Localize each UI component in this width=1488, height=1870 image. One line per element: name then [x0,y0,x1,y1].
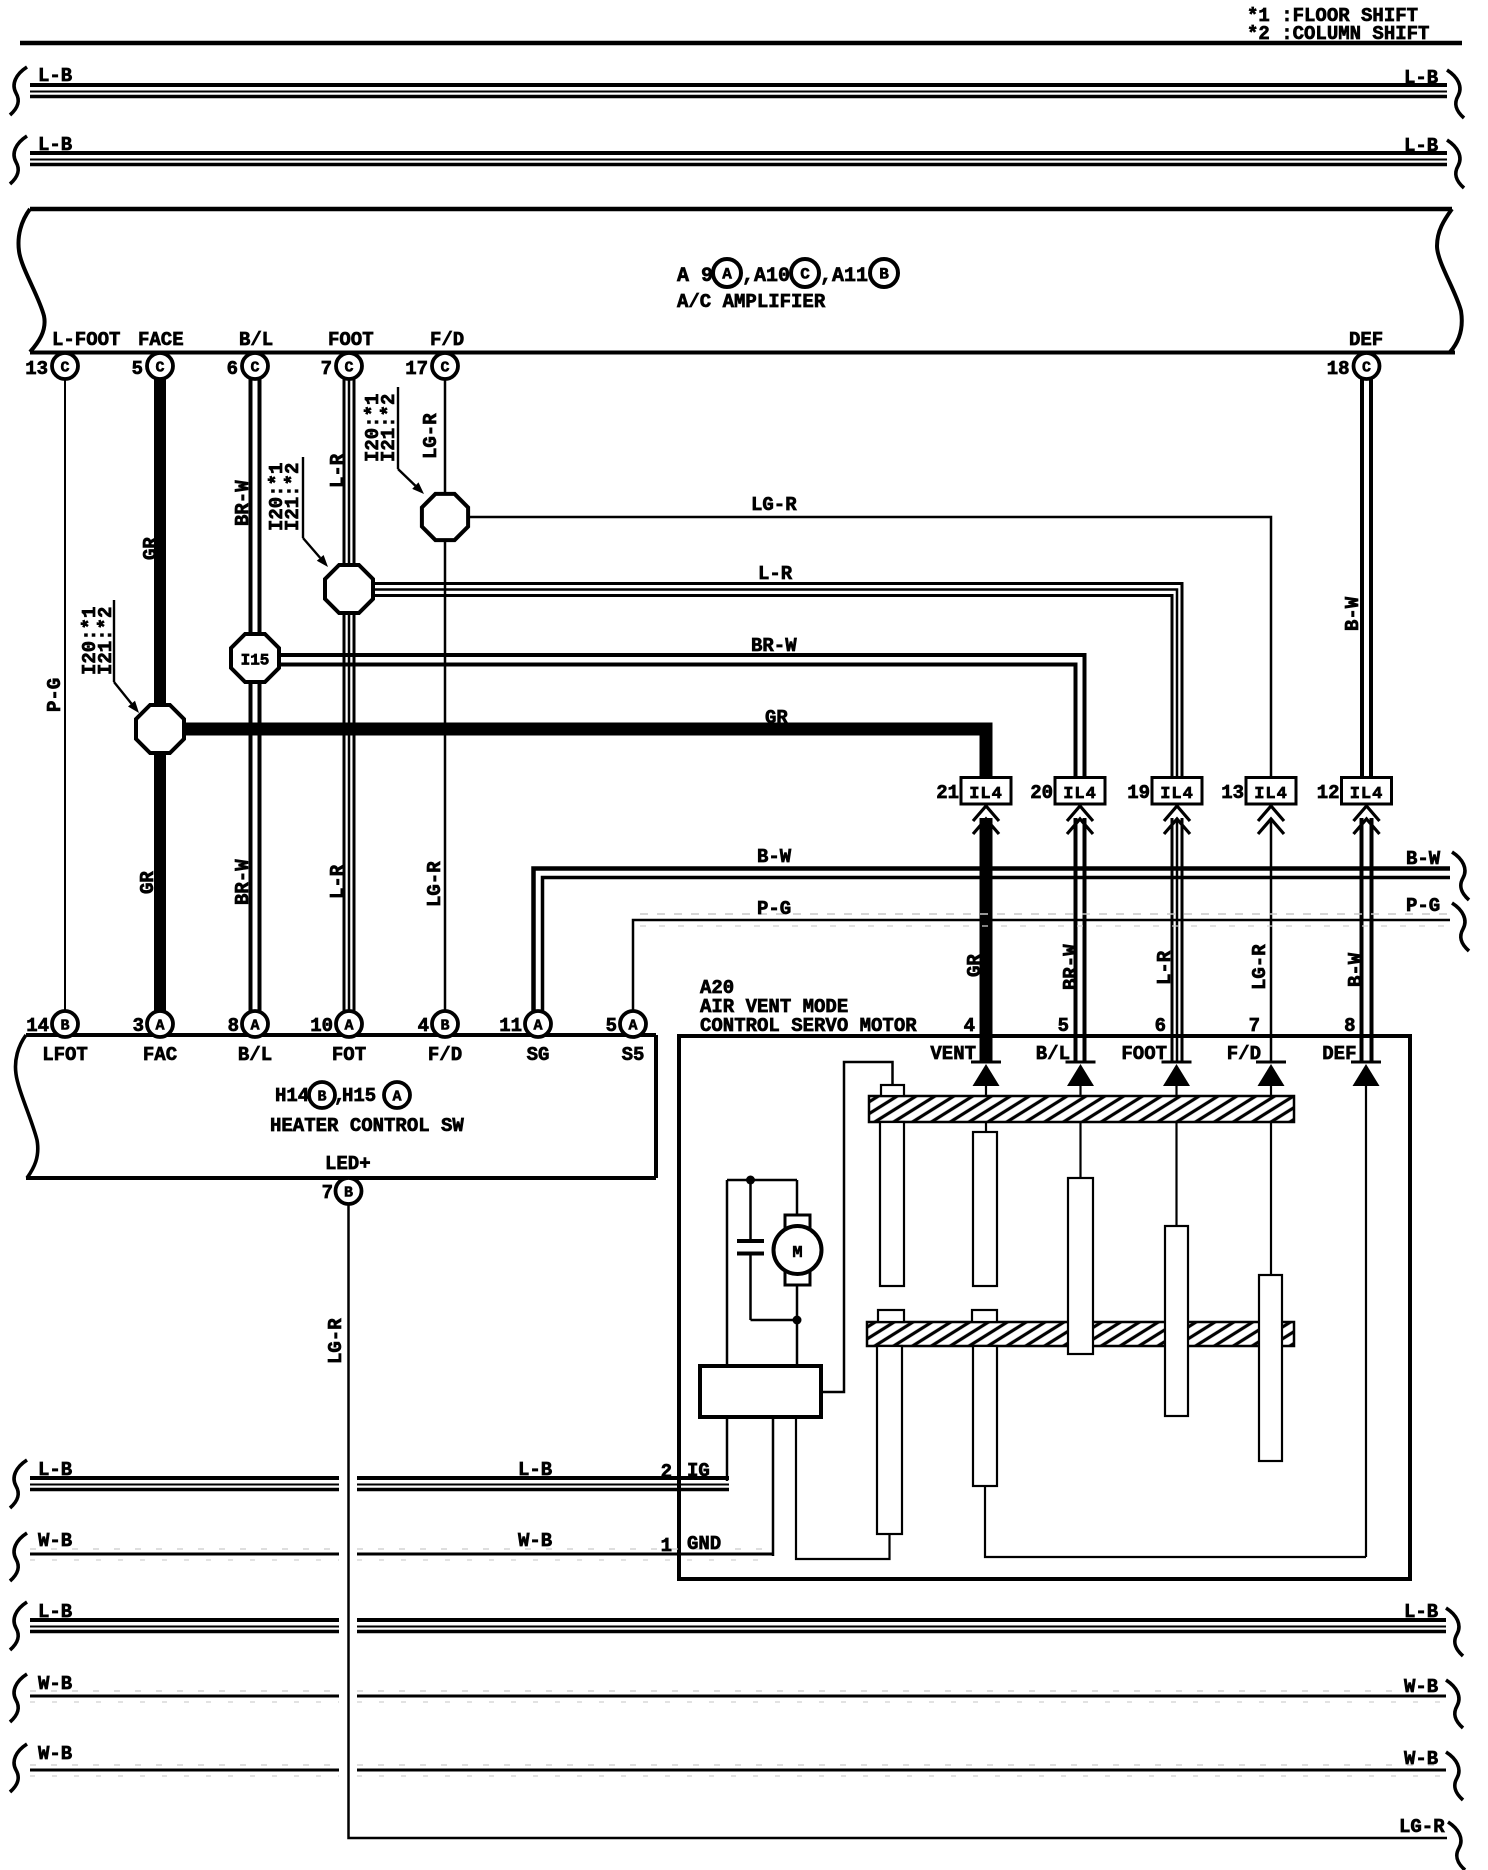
svg-text:F/D: F/D [1227,1043,1261,1065]
svg-text:L-R: L-R [758,563,793,585]
svg-text:IG: IG [687,1460,710,1482]
wiper rod drive lower [877,1346,902,1534]
wire GR horizontal thick to 21 IL4 [184,729,986,779]
svg-text:W-B: W-B [38,1743,72,1765]
svg-text:L-B: L-B [1404,67,1438,89]
wire W-B bus (bottom 1) [10,1673,1463,1728]
svg-text:C: C [1362,360,1371,377]
svg-text:B-W: B-W [757,846,792,868]
svg-text:HEATER CONTROL SW: HEATER CONTROL SW [270,1115,464,1137]
wire LG-R (LED+ to bottom right) [349,1204,1448,1838]
svg-text:BR-W: BR-W [232,859,254,905]
svg-text:IL4: IL4 [1254,785,1288,804]
pin 4 B (heater control SW, F/D) [418,1011,463,1066]
svg-text:B-W: B-W [1342,596,1364,631]
capacitor C (motor) [737,1180,764,1320]
wire B/L contact to wiper [1079,1086,1081,1178]
svg-text:F/D: F/D [430,329,464,351]
svg-text:A/C AMPLIFIER: A/C AMPLIFIER [677,291,826,313]
wire L-R horizontal triple to 19 IL4 [374,584,1182,780]
svg-text:FACE: FACE [138,329,184,351]
svg-text:L-R: L-R [1154,950,1176,985]
junction octagon (GR) I20/I21 [136,705,184,753]
svg-text:IL4: IL4 [1160,785,1194,804]
wire drive lower wiper to relay [796,1417,890,1559]
svg-text:SG: SG [527,1044,550,1066]
chevron arrows below 12 IL4 [1354,806,1380,834]
wire L-R vertical (IL4-19 to servo pin 6) [1172,818,1182,1061]
svg-text:18: 18 [1327,358,1350,380]
svg-text:21: 21 [936,782,959,804]
pin 18 C (A/C amplifier) [1327,353,1380,380]
pin 14 B (heater control SW, LFOT) [26,1011,88,1066]
svg-text:7: 7 [321,358,332,380]
svg-text:VENT: VENT [930,1043,976,1065]
wire P-G bus (S5 to right edge) [633,895,1469,1011]
svg-text:I15: I15 [241,652,270,670]
pin 7 C (A/C amplifier) [321,353,362,380]
svg-text:A: A [533,1018,542,1035]
svg-text:12: 12 [1317,782,1340,804]
svg-text:A: A [722,266,732,284]
svg-text:,A11: ,A11 [820,265,868,288]
svg-text:B/L: B/L [239,329,273,351]
svg-text:W-B: W-B [518,1530,552,1552]
svg-text:FAC: FAC [143,1044,177,1066]
pin 5 C (A/C amplifier) [132,353,173,380]
wire VENT lower wiper to DEF contact [985,1486,1366,1557]
svg-text:A: A [155,1018,164,1035]
svg-text:P-G: P-G [44,678,66,712]
wiper rod VENT lower [973,1346,997,1486]
svg-text:H14: H14 [275,1085,309,1107]
wiper rod F/D [1259,1275,1282,1461]
label H14 B, H15 A [275,1082,410,1108]
svg-text:11: 11 [499,1015,522,1037]
svg-text:LG-R: LG-R [1399,1816,1445,1838]
wire LG-R horizontal to 13 IL4 [469,517,1271,779]
contact triangle B/L [1066,1061,1096,1087]
svg-text:LED+: LED+ [325,1153,371,1175]
svg-text:C: C [155,360,164,377]
svg-text:B: B [60,1018,69,1035]
component A20 air vent mode control servo motor box [679,1036,1410,1579]
svg-text:C: C [440,360,449,377]
junction dot (cap/motor top) [746,1176,755,1185]
pin 11 A (heater control SW, SG) [499,1011,551,1066]
junction octagon (LG-R) I20/I21 [422,494,468,540]
svg-text:I21:*2: I21:*2 [378,394,400,462]
svg-text:LG-R: LG-R [424,861,446,907]
wire B-W vertical double (pin18 to 12 IL4) [1362,379,1371,779]
svg-text:L-B: L-B [1404,1601,1438,1623]
bump on lower bar (drive) [878,1310,904,1322]
svg-text:,A10: ,A10 [742,265,790,288]
svg-text:M: M [792,1244,802,1263]
brace LG-R right [1448,1822,1465,1870]
wire motor loop top [727,1179,797,1182]
svg-text:5: 5 [606,1015,617,1037]
svg-text:B-W: B-W [1406,848,1441,870]
note I20:*1 I21:*2 (L-R octagon) [266,457,328,567]
wiper rod FOOT [1165,1226,1188,1416]
note I20:*1 I21:*2 (LG-R octagon) [362,387,424,494]
svg-text:7: 7 [1249,1015,1260,1037]
wire GR vertical (IL4-21 to servo pin 4) [980,818,993,1061]
wire B-W vertical (IL4-12 to servo pin 8) [1362,818,1372,1061]
svg-text:L-R: L-R [327,453,349,488]
svg-text:DEF: DEF [1349,329,1383,351]
svg-text:S5: S5 [622,1044,645,1066]
svg-text:1: 1 [661,1535,672,1557]
bump on lower bar (VENT) [972,1310,997,1322]
svg-text:A 9: A 9 [677,265,713,288]
slider bar lower (hatched) [867,1322,1294,1346]
connector 21 IL4 [936,778,1011,805]
svg-text:7: 7 [322,1182,333,1204]
wire W-B bus (GND) [10,1530,773,1581]
pin 13 C (A/C amplifier) [25,353,78,380]
wire BR-W vertical double [251,379,260,1011]
contact triangle DEF [1351,1061,1381,1087]
svg-text:B/L: B/L [1036,1043,1070,1065]
junction dot (motor bottom) [793,1316,802,1325]
svg-text:BR-W: BR-W [232,480,254,526]
wire L-B bus (bottom) [10,1601,1463,1656]
svg-text:B-W: B-W [1345,952,1367,987]
svg-text:4: 4 [418,1015,429,1037]
svg-text:10: 10 [310,1015,333,1037]
svg-text:5: 5 [1058,1015,1069,1037]
pin 5 A (heater control SW, S5) [606,1011,646,1066]
note I20:*1 I21:*2 (GR octagon) [79,600,139,713]
contact triangle F/D [1256,1061,1286,1087]
wire BR-W vertical (IL4-20 to servo pin 5) [1076,818,1085,1061]
svg-text:LG-R: LG-R [420,413,442,459]
svg-text:A: A [344,1018,353,1035]
svg-text:F/D: F/D [428,1044,462,1066]
connector 20 IL4 [1030,778,1105,805]
svg-text:P-G: P-G [757,898,791,920]
svg-text:LG-R: LG-R [325,1318,347,1364]
svg-text:LG-R: LG-R [751,494,797,516]
wire B-W bus (SG to right edge) [534,846,1470,1011]
svg-text:B: B [344,1185,353,1202]
svg-text:13: 13 [1221,782,1244,804]
pin 7 B (heater control SW LED+) [322,1178,362,1204]
wire L-B bus (top 2) [10,134,1464,188]
svg-text:GR: GR [765,707,788,729]
svg-text:A: A [628,1018,637,1035]
svg-text:8: 8 [228,1015,239,1037]
component A/C AMPLIFIER band [18,209,1461,353]
junction octagon I15 (BR-W) [231,634,279,682]
svg-text:C: C [800,266,810,284]
svg-text:W-B: W-B [1404,1748,1438,1770]
svg-text:BR-W: BR-W [1060,944,1082,990]
svg-text:H15: H15 [342,1085,376,1107]
wire DEF contact down to link [1365,1086,1367,1557]
chevron arrows below 21 IL4 [973,806,999,834]
top border line [20,41,1462,46]
wire L-B bus (IG) [10,1459,729,1508]
svg-text:L-R: L-R [327,864,349,899]
svg-text:W-B: W-B [38,1673,72,1695]
connector 12 IL4 [1317,778,1392,805]
svg-text:GR: GR [137,871,159,894]
wire cap bottom to motor bottom [751,1319,798,1322]
wire relay to GND [772,1417,775,1556]
svg-text:LG-R: LG-R [1249,944,1271,990]
svg-text:FOOT: FOOT [328,329,374,351]
wire relay to slider bump [821,1062,893,1392]
svg-text:L-B: L-B [518,1459,552,1481]
svg-text:B: B [440,1018,449,1035]
svg-text:4: 4 [964,1015,975,1037]
svg-text:IL4: IL4 [1350,785,1384,804]
svg-text:B: B [879,266,889,284]
svg-text:5: 5 [132,358,143,380]
svg-text:14: 14 [26,1015,49,1037]
svg-text:L-FOOT: L-FOOT [52,329,120,351]
svg-text:W-B: W-B [1404,1676,1438,1698]
pin 6 C (A/C amplifier) [227,353,268,380]
svg-text:FOOT: FOOT [1121,1043,1167,1065]
wire L-B bus (top 1) [10,65,1464,118]
relay/control block [700,1366,821,1417]
wire VENT contact to wiper [985,1086,987,1132]
svg-text:GR: GR [964,954,986,977]
wire motor loop left branch [726,1180,729,1366]
pin 10 A (heater control SW, FOT) [310,1011,366,1066]
svg-text:8: 8 [1344,1015,1355,1037]
wire P-G vertical (pin13 to pin14) [64,379,66,1011]
wire W-B bus (bottom 2) [10,1743,1463,1800]
wire L-R vertical triple [344,379,354,1011]
motor M (servo) [774,1215,822,1285]
svg-text:19: 19 [1127,782,1150,804]
wire F/D contact to wiper [1270,1086,1272,1275]
contact triangle VENT [971,1061,1001,1087]
slider bar upper (hatched) [869,1096,1294,1122]
svg-text:2: 2 [661,1461,672,1483]
svg-text:6: 6 [227,358,238,380]
pin 8 A (heater control SW, B/L) [228,1011,273,1066]
wire motor bottom lead [796,1285,799,1366]
svg-text:CONTROL SERVO MOTOR: CONTROL SERVO MOTOR [700,1015,917,1037]
wiper rod VENT [973,1132,997,1286]
wire motor top lead [796,1180,799,1216]
svg-text:I21:*2: I21:*2 [282,463,304,531]
svg-text:6: 6 [1155,1015,1166,1037]
svg-text:BR-W: BR-W [751,635,797,657]
chevron arrows below 19 IL4 [1164,806,1190,834]
wire LG-R vertical (IL4-13 to servo pin 7) [1270,818,1273,1061]
svg-text:20: 20 [1030,782,1053,804]
wire relay to IG [726,1417,729,1481]
pin 3 A (heater control SW, FAC) [133,1011,178,1066]
svg-text:13: 13 [25,358,48,380]
svg-text:GR: GR [140,537,162,560]
svg-text:FOT: FOT [332,1044,366,1066]
svg-text:IL4: IL4 [1063,785,1097,804]
svg-text:17: 17 [405,358,428,380]
svg-text:C: C [344,360,353,377]
wire GR vertical thick [154,379,166,1011]
junction octagon (L-R) I20/I21 [325,565,373,613]
svg-text:IL4: IL4 [969,785,1003,804]
svg-text:P-G: P-G [1406,895,1440,917]
svg-text:C: C [60,360,69,377]
label A 9 A,A10 C,A11 B [677,259,898,288]
wiper rod drive upper [880,1122,904,1286]
bump on upper bar (drive) [881,1085,904,1096]
component HEATER CONTROL SW box [15,1035,656,1178]
svg-text:C: C [250,360,259,377]
chevron arrows below 13 IL4 [1258,806,1284,834]
svg-text:LFOT: LFOT [42,1044,88,1066]
connector 13 IL4 [1221,778,1296,805]
wire LG-R vertical [444,379,447,1011]
svg-text:L-B: L-B [1404,135,1438,157]
wire FOOT contact to wiper [1175,1086,1177,1226]
svg-text:3: 3 [133,1015,144,1037]
svg-text:A: A [392,1089,401,1106]
wire BR-W horizontal double to 20 IL4 [280,655,1085,779]
svg-text:GND: GND [687,1533,721,1555]
contact triangle FOOT [1162,1061,1192,1087]
connector 19 IL4 [1127,778,1202,805]
wiper rod B/L [1068,1178,1093,1354]
svg-text:B/L: B/L [238,1044,272,1066]
chevron arrows below 20 IL4 [1067,806,1093,834]
svg-text:B: B [317,1089,326,1106]
pin 17 C (A/C amplifier) [405,353,458,380]
svg-text:A: A [250,1018,259,1035]
